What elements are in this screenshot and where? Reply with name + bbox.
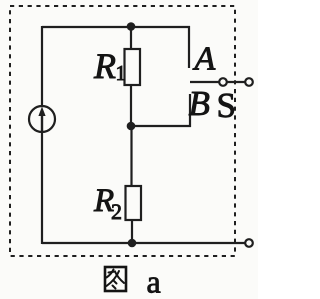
wire: left vertical lower — [41, 131, 43, 244]
svg-text:B: B — [189, 84, 210, 123]
switch S pivot circle — [219, 78, 227, 86]
resistor R1 body — [125, 49, 141, 85]
wire: contact A vertical stub — [188, 26, 190, 68]
svg-text:a: a — [147, 264, 161, 299]
wire: R1 bottom to middle node — [130, 85, 132, 127]
svg-text:A: A — [193, 41, 216, 78]
wire: R2 bottom to bottom node — [131, 220, 133, 243]
wire: bottom horizontal — [42, 242, 246, 244]
resistor R2 body — [126, 186, 142, 220]
wire: top horizontal (node to left corner) — [42, 26, 131, 28]
caption glyph 图 (drawn) — [105, 267, 126, 291]
terminal (bottom right) — [245, 239, 253, 247]
wire: contact B vertical stub — [189, 94, 191, 127]
svg-text:2: 2 — [111, 199, 122, 224]
wire: node to R1 top — [130, 27, 132, 50]
wire: pivot to top terminal — [227, 81, 246, 83]
svg-text:1: 1 — [116, 61, 127, 85]
current source I1 circle — [29, 106, 55, 132]
wire: left vertical upper — [41, 26, 43, 107]
terminal (top right) — [245, 78, 253, 86]
svg-text:S: S — [217, 86, 236, 125]
node: middle junction — [127, 122, 136, 131]
wire: top horizontal (node to contact A corner) — [131, 26, 190, 28]
switch S lever wire — [190, 81, 219, 83]
dashed enclosure border — [10, 6, 235, 256]
wire: contact B horizontal — [131, 125, 191, 127]
svg-text:R: R — [93, 46, 116, 86]
current source I1 arrow — [38, 107, 45, 132]
node: bottom junction — [128, 239, 137, 248]
node: top junction — [127, 22, 136, 31]
wire: middle node down to R2 top — [130, 126, 132, 187]
